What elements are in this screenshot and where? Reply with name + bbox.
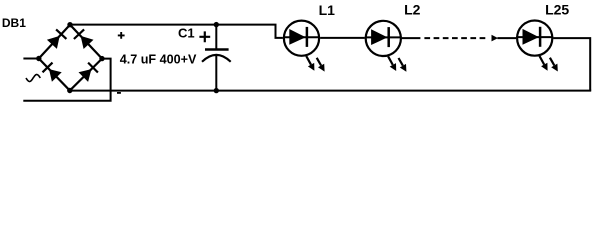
svg-text:L25: L25 (545, 2, 569, 18)
svg-text:C1: C1 (178, 26, 195, 41)
svg-text:L2: L2 (404, 1, 421, 17)
svg-text:4.7 uF 400+V: 4.7 uF 400+V (120, 53, 197, 67)
svg-text:L1: L1 (319, 2, 336, 18)
svg-text:DB1: DB1 (2, 16, 26, 30)
